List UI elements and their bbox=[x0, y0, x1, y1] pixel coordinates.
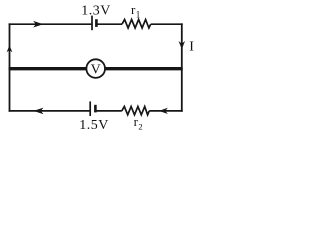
label 1.3V bbox=[81, 4, 111, 19]
current arrow on bottom rail right (leftward) bbox=[159, 108, 168, 114]
voltmeter V bbox=[86, 59, 105, 78]
wire top rail left segment bbox=[9, 23, 92, 25]
wire top rail mid segment bbox=[96, 23, 122, 25]
label r1 bbox=[131, 2, 140, 19]
svg-text:2: 2 bbox=[138, 122, 142, 132]
label 1.5V bbox=[79, 118, 109, 133]
battery B2 short plate bbox=[94, 105, 97, 113]
label r2 bbox=[134, 114, 143, 132]
svg-text:I: I bbox=[189, 39, 194, 54]
current arrow I on right wire (downward) bbox=[179, 41, 186, 49]
label I bbox=[189, 39, 194, 54]
wire bottom rail mid segment bbox=[95, 110, 121, 112]
resistor r1 bbox=[122, 20, 151, 29]
svg-text:1.3V: 1.3V bbox=[81, 4, 111, 19]
resistor r2 bbox=[122, 107, 149, 115]
current arrow on bottom rail left (leftward) bbox=[34, 108, 44, 115]
wire left vertical bbox=[9, 23, 11, 111]
battery B1 long plate bbox=[91, 16, 93, 31]
svg-text:V: V bbox=[91, 63, 101, 78]
current arrow on top rail (rightward) bbox=[33, 21, 43, 28]
wire top rail right segment bbox=[151, 23, 183, 25]
wire middle rail left segment bbox=[9, 67, 86, 70]
wire bottom rail left segment bbox=[9, 110, 90, 112]
battery B1 short plate bbox=[95, 19, 98, 27]
current arrow on left wire (upward) bbox=[7, 45, 13, 52]
wire right vertical bbox=[181, 23, 183, 111]
battery B2 long plate bbox=[89, 101, 91, 116]
wire middle rail right segment bbox=[106, 67, 183, 70]
svg-text:1: 1 bbox=[136, 10, 141, 20]
svg-text:1.5V: 1.5V bbox=[79, 118, 109, 133]
wire bottom rail right segment bbox=[149, 110, 183, 112]
